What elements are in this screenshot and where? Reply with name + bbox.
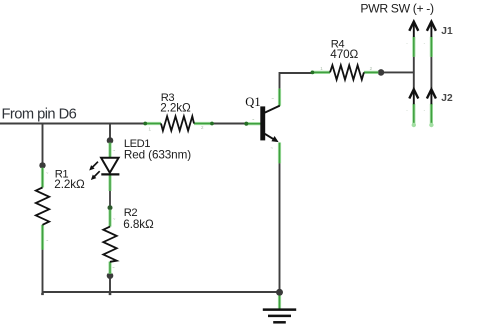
pin leg: J1 pin 1 (green) xyxy=(412,37,415,57)
junction: R2 bottom bendpoint xyxy=(107,272,114,279)
wire: drop to LED branch xyxy=(109,123,111,141)
pin leg: J1 pin 2 (green) xyxy=(430,37,433,57)
resistor R4 zigzag body xyxy=(330,65,364,79)
resistor R1 zigzag body (vertical) xyxy=(36,188,49,225)
svg-text:Q1: Q1 xyxy=(245,95,260,109)
transistor Q1 collector lead xyxy=(265,106,280,113)
wire: ground rail to GND junction xyxy=(110,291,280,293)
wire: net "From pin D6" top horizontal xyxy=(0,123,145,125)
svg-text:~: ~ xyxy=(271,96,274,101)
pin leg: R1 pin 2 (green) xyxy=(41,225,44,250)
wire: LED1 cathode to R2 xyxy=(109,191,111,206)
svg-text:~: ~ xyxy=(270,146,273,151)
LED1 diode triangle xyxy=(101,158,119,173)
svg-text:~: ~ xyxy=(112,265,115,270)
pin leg: Q1 base (green) xyxy=(246,122,261,125)
pin leg: LED1 anode (green) xyxy=(108,143,111,158)
ground symbol xyxy=(263,308,296,311)
wire: J1 pin1 stem through junction to J2 pin1 xyxy=(413,57,415,90)
pin leg: GND (green) xyxy=(278,296,281,310)
svg-text:~: ~ xyxy=(252,117,255,122)
svg-text:6.8kΩ: 6.8kΩ xyxy=(123,218,154,231)
pin leg: Q1 collector (green) xyxy=(278,89,281,106)
pin leg: Q1 emitter (green) xyxy=(278,143,281,164)
svg-text:2.2kΩ: 2.2kΩ xyxy=(54,178,85,191)
pin leg: R2 pin 1 (green) xyxy=(108,210,111,227)
svg-text:~: ~ xyxy=(113,148,116,153)
svg-text:~: ~ xyxy=(46,170,49,175)
pin leg: R4 pin 1 (green) xyxy=(312,71,330,74)
wire: Q1 emitter down to ground xyxy=(279,163,281,292)
pin leg: LED1 cathode (green) xyxy=(108,175,111,191)
junction: R2 top bendpoint xyxy=(108,205,113,210)
pin leg: R1 pin 1 (green) xyxy=(41,168,44,188)
LED1 emission arrow upper xyxy=(92,162,98,168)
pin leg: R2 pin 2 (green) xyxy=(108,262,111,274)
wire: Q1 collector up and over to R4 xyxy=(280,73,312,89)
transistor Q1 emitter lead with arrow xyxy=(265,134,275,140)
pin leg: J2 pin 2 (green) xyxy=(430,104,433,126)
svg-text:2.2kΩ: 2.2kΩ xyxy=(160,101,191,114)
LED1 cathode bar xyxy=(101,173,119,175)
svg-text:J1: J1 xyxy=(441,26,453,37)
resistor R3 zigzag body xyxy=(161,116,194,130)
junction: GND node xyxy=(276,289,283,296)
svg-text:PWR SW (+ -): PWR SW (+ -) xyxy=(360,1,434,15)
junction: LED1 anode bendpoint xyxy=(107,137,114,144)
svg-text:From pin D6: From pin D6 xyxy=(2,106,77,122)
wire: R2 bottom to ground rail xyxy=(109,276,111,292)
resistor R2 zigzag body (vertical) xyxy=(103,227,116,262)
pin leg: R3 pin 1 (green) xyxy=(145,122,161,125)
junction: R4 pin2 bendpoint xyxy=(378,69,385,76)
svg-text:J2: J2 xyxy=(441,93,453,104)
wire: R4 to switch columns xyxy=(381,71,414,73)
wire: R3 to Q1 base xyxy=(213,123,247,125)
wire: J1 pin2 stem down to J2 pin2 xyxy=(430,57,432,90)
connector J1 pin 1 arrow xyxy=(409,22,418,31)
connector J2 pin 1 arrow xyxy=(409,89,418,98)
LED1 emission arrow lower xyxy=(94,171,100,177)
wire: drop to R1 branch xyxy=(42,123,44,166)
connector J2 pin 2 arrow xyxy=(427,89,436,98)
junction: R1 top bendpoint xyxy=(39,162,45,168)
svg-text:~: ~ xyxy=(113,216,116,221)
pin leg: J2 pin 1 (green) xyxy=(412,104,415,126)
transistor Q1 base bar xyxy=(260,106,265,140)
svg-text:Red (633nm): Red (633nm) xyxy=(124,148,191,161)
pin leg: R3 pin 2 (green) xyxy=(194,122,213,125)
wire: R1 bottom to ground rail xyxy=(43,249,111,292)
svg-text:R2: R2 xyxy=(124,207,138,219)
svg-text:~: ~ xyxy=(46,238,49,243)
svg-text:470Ω: 470Ω xyxy=(330,48,358,61)
pin leg: R4 pin 2 (green) xyxy=(364,71,378,74)
connector J1 pin 2 arrow xyxy=(427,22,436,31)
